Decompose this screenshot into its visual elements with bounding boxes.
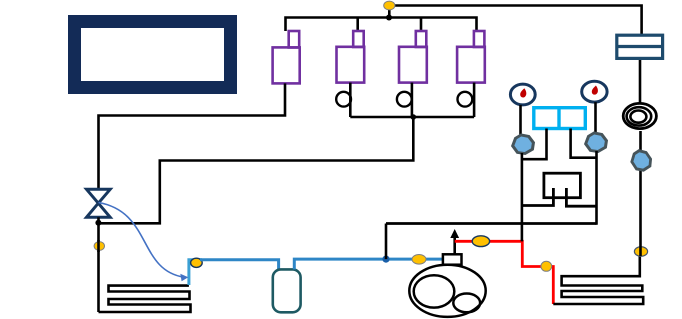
solenoid valve SV2 bbox=[337, 31, 365, 83]
wire lower bus SV2-SV4 bbox=[350, 116, 474, 119]
wire TXV to evaporator bbox=[97, 217, 100, 312]
solenoid valve SV1 bbox=[273, 31, 300, 83]
discharge arrow bbox=[453, 237, 456, 255]
discharge line (red) bbox=[455, 241, 554, 304]
wire gauge high to hand valve bbox=[594, 102, 597, 136]
node junction on suction line bbox=[382, 256, 389, 263]
equalizer line bottom bbox=[386, 222, 597, 225]
legend box (empty navy frame) bbox=[75, 22, 231, 88]
service port (yellow) on condenser riser bbox=[634, 247, 647, 257]
compressor pump ellipse bbox=[453, 294, 480, 313]
dual pressure switch bbox=[534, 108, 586, 129]
accumulator vessel bbox=[273, 269, 301, 312]
wire low side valve down bbox=[521, 153, 524, 241]
wire SV3 drop bbox=[411, 83, 414, 117]
wire stub ellipse to bus bbox=[388, 6, 391, 18]
wire SV4 drop bbox=[473, 83, 476, 117]
suction line accumulator to compressor bbox=[294, 259, 443, 269]
manifold block bbox=[544, 173, 581, 198]
manifold port right bbox=[566, 188, 596, 206]
compressor motor ellipse bbox=[414, 275, 455, 307]
manifold port left bbox=[522, 188, 554, 206]
filter drier bbox=[617, 35, 663, 58]
wire drop valve 3 bbox=[420, 18, 423, 32]
expansion valve TXV bbox=[87, 189, 111, 217]
wire pressure switch left port bbox=[522, 129, 547, 160]
wire from top ellipse to filter drier bbox=[389, 6, 641, 36]
hand valve high side bbox=[584, 130, 609, 153]
service port (yellow) on discharge line bbox=[472, 236, 489, 247]
hand valve on riser bbox=[630, 148, 653, 172]
suction line to accumulator bbox=[200, 260, 279, 270]
compressor shell bbox=[409, 265, 485, 317]
coil loop under SV4 bbox=[458, 92, 473, 107]
service port (yellow) on liquid line bbox=[94, 242, 104, 251]
node junction below TXV bbox=[95, 220, 101, 226]
service port (yellow) on suction line bbox=[412, 254, 426, 264]
coil loop under SV2 bbox=[336, 92, 351, 107]
wire sight glass to filter drier bbox=[639, 58, 642, 103]
wire gauge low to hand valve bbox=[519, 105, 522, 137]
wire drop valve 2 bbox=[356, 18, 359, 32]
node junction lower bus bbox=[411, 114, 417, 120]
solenoid valve SV3 bbox=[399, 31, 427, 83]
suction riser (light blue) bbox=[189, 260, 202, 285]
wire lower bus to expansion valve outlet bbox=[99, 117, 414, 223]
service port (yellow ellipse) on top wire bbox=[384, 1, 395, 10]
evaporator coil bbox=[99, 286, 191, 312]
sight glass bbox=[623, 103, 656, 128]
wire pressure switch right port bbox=[571, 129, 597, 158]
coil loop under SV3 bbox=[397, 92, 412, 107]
gauge low side bbox=[510, 84, 535, 105]
wire top bus to valves bbox=[286, 18, 477, 32]
solenoid valve SV4 bbox=[457, 31, 485, 83]
wire SV2 drop bbox=[349, 83, 352, 117]
gauge high side bbox=[582, 81, 607, 102]
wire equalizer to suction junction bbox=[385, 224, 388, 260]
wire high side valve down bbox=[595, 151, 598, 225]
service port (yellow) at evaporator outlet bbox=[191, 258, 203, 267]
node junction top bus bbox=[386, 15, 392, 21]
service port (yellow) before condenser bbox=[541, 261, 552, 271]
compressor terminal box bbox=[443, 254, 462, 264]
wire condenser riser to sight glass bbox=[639, 131, 642, 256]
condenser coil bbox=[553, 256, 643, 304]
wire SV1 to liquid line left bbox=[99, 83, 286, 188]
capillary arrow (blue curve) bbox=[99, 203, 185, 278]
hand valve low side bbox=[511, 132, 536, 155]
